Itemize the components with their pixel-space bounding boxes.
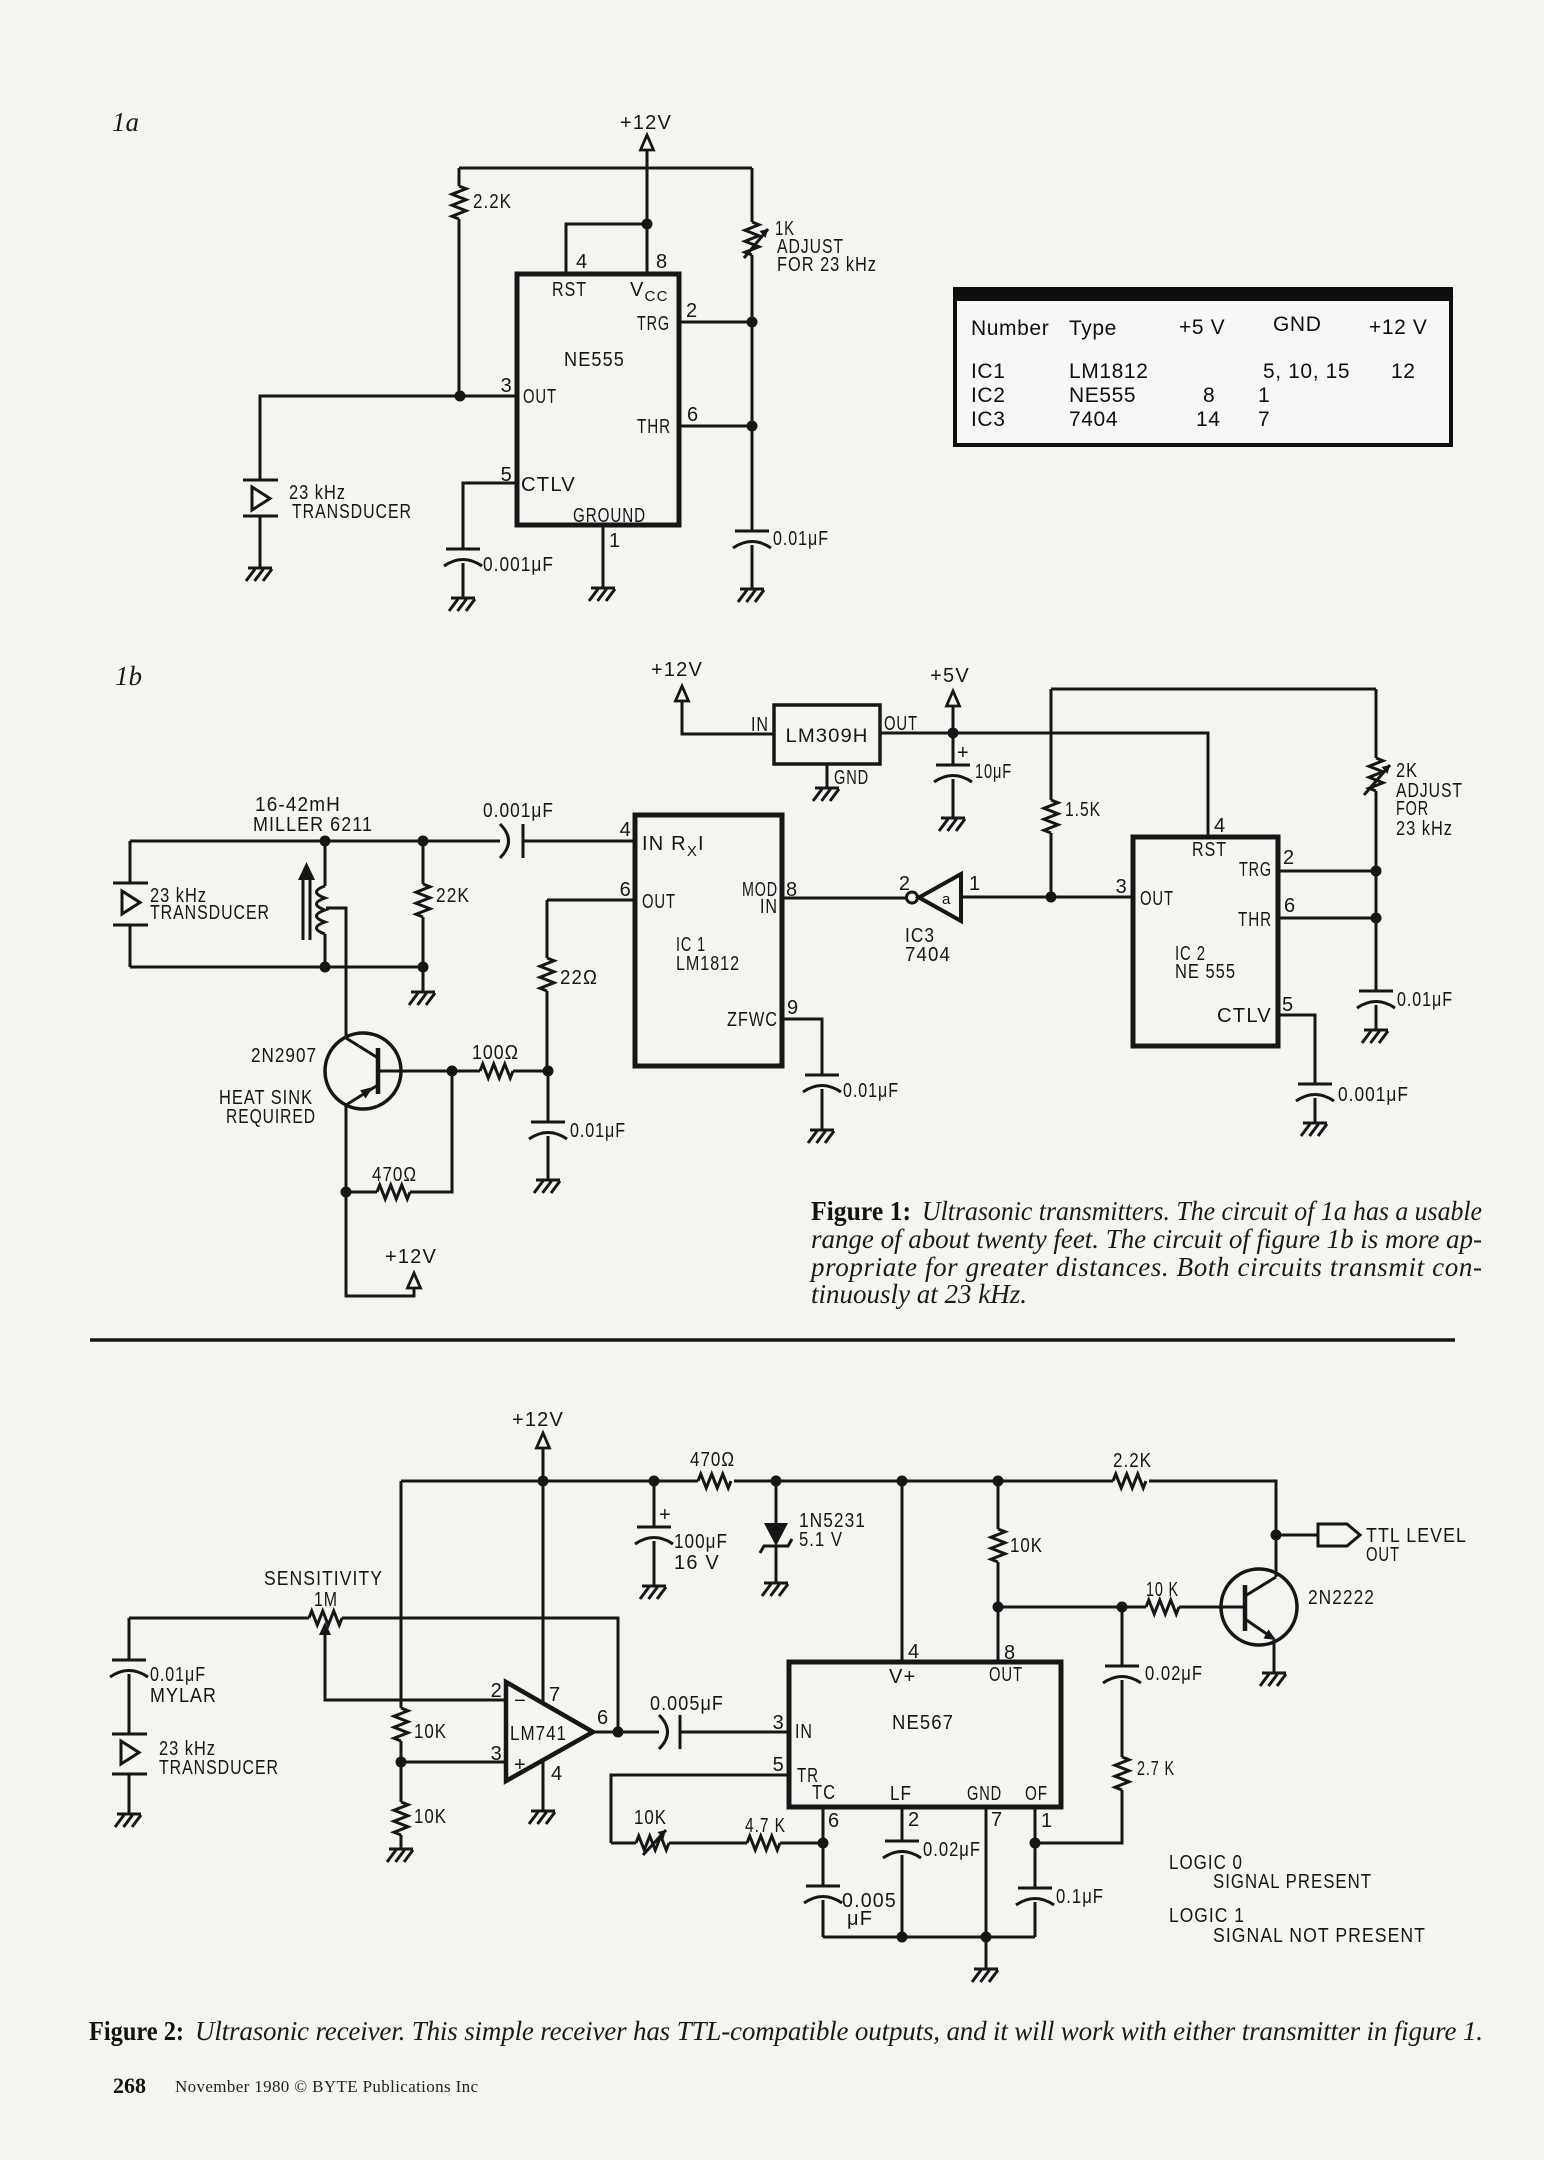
svg-text:OUT: OUT — [1366, 1544, 1400, 1566]
ground (10uF) — [939, 818, 965, 831]
pin 8 wire (NE567 OUT) with resistor 10K — [991, 1481, 1043, 1664]
svg-text:V+: V+ — [889, 1666, 916, 1688]
pin 7 wire (NE567 GND) — [986, 1807, 1003, 1969]
transistor Q1 2N2907 — [219, 1033, 452, 1192]
svg-text:CTLV: CTLV — [521, 474, 576, 496]
svg-text:4.7 K: 4.7 K — [745, 1815, 786, 1837]
node pin4/pin8 junction — [642, 219, 653, 230]
+5V supply symbol — [930, 665, 970, 733]
svg-text:LM1812: LM1812 — [676, 953, 740, 975]
separator rule — [90, 1338, 1455, 1342]
svg-text:8: 8 — [786, 879, 798, 901]
op-amp U1 LM741 — [491, 1680, 610, 1785]
IC NE555 (1a) — [517, 274, 679, 527]
svg-text:Type: Type — [1069, 317, 1117, 340]
pin 2 wire (1a TRG) — [679, 300, 752, 322]
node divider midpoint — [396, 1757, 407, 1768]
svg-text:22Ω: 22Ω — [560, 967, 598, 989]
svg-text:NE567: NE567 — [892, 1712, 954, 1734]
svg-text:LOGIC 1: LOGIC 1 — [1169, 1905, 1245, 1927]
svg-text:IN: IN — [751, 714, 769, 736]
ground (100uF) — [640, 1586, 666, 1599]
svg-text:0.001μF: 0.001μF — [1338, 1084, 1409, 1106]
svg-text:16 V: 16 V — [674, 1552, 720, 1574]
capacitor 100uF 16V — [635, 1481, 728, 1586]
node rail/100uF — [649, 1476, 660, 1487]
ground (pin1 1a) — [589, 588, 615, 601]
node rail/V+ — [897, 1476, 908, 1487]
svg-text:SIGNAL NOT PRESENT: SIGNAL NOT PRESENT — [1213, 1925, 1426, 1947]
svg-text:1b: 1b — [115, 661, 142, 691]
svg-text:100μF: 100μF — [674, 1531, 728, 1553]
svg-text:TRANSDUCER: TRANSDUCER — [292, 501, 412, 523]
node 22K top — [418, 836, 429, 847]
svg-text:NE 555: NE 555 — [1175, 961, 1236, 983]
node inverter output junction — [1046, 892, 1057, 903]
svg-text:propriate for greater distance: propriate for greater distances. Both ci… — [809, 1252, 1482, 1282]
svg-text:7404: 7404 — [1069, 408, 1118, 431]
svg-text:GND: GND — [967, 1783, 1002, 1805]
svg-text:IN: IN — [795, 1721, 813, 1743]
potentiometer 10K (TR) — [611, 1807, 747, 1855]
svg-text:0.1μF: 0.1μF — [1056, 1886, 1104, 1908]
svg-text:TRG: TRG — [637, 313, 670, 335]
svg-text:ZFWC: ZFWC — [727, 1009, 778, 1031]
resistor 2.2K — [452, 168, 512, 396]
svg-text:2N2907: 2N2907 — [251, 1045, 317, 1067]
svg-text:+5V: +5V — [930, 665, 970, 687]
svg-text:OUT: OUT — [642, 891, 676, 913]
svg-text:8: 8 — [1203, 384, 1215, 407]
capacitor 0.01uF (IC1 OUT) — [529, 1071, 626, 1180]
svg-text:1: 1 — [969, 873, 981, 895]
capacitor 0.1uF (OF) — [1016, 1886, 1104, 1937]
svg-text:1a: 1a — [112, 107, 139, 137]
wire bottom rail (fig2) — [823, 1936, 1035, 1939]
capacitor 10uF — [934, 733, 1012, 818]
transducer 23kHz (fig2) — [112, 1734, 279, 1814]
capacitor 0.01uF (ZFWC) — [803, 1075, 899, 1130]
node junction at OUT — [455, 391, 466, 402]
svg-text:GND: GND — [1273, 313, 1321, 336]
node 100 ohm / 22 ohm junction — [543, 1066, 554, 1077]
svg-text:10K: 10K — [414, 1721, 447, 1743]
ground (0.01uF 1a) — [738, 589, 764, 602]
svg-text:2K: 2K — [1396, 760, 1418, 782]
parts table — [953, 287, 1453, 445]
svg-text:6: 6 — [1284, 895, 1296, 917]
svg-text:470Ω: 470Ω — [372, 1164, 417, 1186]
svg-text:9: 9 — [787, 997, 799, 1019]
svg-text:7: 7 — [991, 1809, 1003, 1831]
node inductor bottom — [320, 962, 331, 973]
resistor 22K — [416, 841, 470, 992]
node base junction — [447, 1066, 458, 1077]
svg-text:4: 4 — [576, 251, 588, 273]
node rail/10K — [993, 1476, 1004, 1487]
svg-text:0.001μF: 0.001μF — [483, 554, 554, 576]
svg-text:Ultrasonic transmitters. The c: Ultrasonic transmitters. The circuit of … — [922, 1196, 1482, 1226]
capacitor 0.001uF (1a) — [444, 549, 554, 598]
zener diode 1N5231 5.1V — [760, 1481, 866, 1583]
svg-text:a: a — [942, 891, 951, 908]
svg-text:GND: GND — [834, 767, 869, 789]
capacitor 0.01uF (1a) — [733, 528, 829, 589]
svg-text:10K: 10K — [1010, 1535, 1043, 1557]
capacitor 0.02uF (LF) — [883, 1839, 981, 1937]
resistor 10K (base) — [1146, 1579, 1245, 1614]
svg-text:RST: RST — [552, 279, 587, 301]
ground (2N2222 emitter) — [1260, 1673, 1286, 1686]
ground (LM309H) — [813, 788, 839, 801]
ground (transducer fig2) — [115, 1814, 141, 1827]
ground stub (LM309H GND) — [827, 764, 869, 789]
svg-text:10 K: 10 K — [1146, 1579, 1179, 1601]
pin 1 wire (NE567 OF) — [1035, 1807, 1053, 1888]
node collector/TTL out — [1271, 1530, 1282, 1541]
svg-text:2: 2 — [491, 1680, 503, 1702]
resistor 2.7K — [1035, 1757, 1175, 1843]
svg-text:100Ω: 100Ω — [472, 1042, 519, 1064]
pin 3 wire (IC2 OUT to inverter) — [961, 876, 1133, 898]
ground (0.001uF 1a) — [449, 598, 475, 611]
svg-text:LF: LF — [890, 1783, 912, 1805]
svg-text:MYLAR: MYLAR — [150, 1685, 217, 1707]
ground (10K divider) — [387, 1849, 413, 1862]
wire feedback net top (1b) — [1051, 688, 1376, 691]
svg-text:0.005μF: 0.005μF — [650, 1693, 724, 1715]
svg-text:470Ω: 470Ω — [690, 1449, 735, 1471]
svg-text:5, 10, 15: 5, 10, 15 — [1263, 360, 1350, 383]
wire op-amp output — [593, 1731, 659, 1734]
svg-text:22K: 22K — [436, 885, 470, 907]
svg-text:5: 5 — [773, 1754, 785, 1776]
ground (22K) — [409, 992, 435, 1005]
svg-text:0.01μF: 0.01μF — [150, 1664, 206, 1686]
svg-text:Ultrasonic receiver. This simp: Ultrasonic receiver. This simple receive… — [195, 2016, 1483, 2046]
resistor 470 ohm — [346, 1071, 452, 1199]
capacitor 0.005uF coupling (fig2) — [650, 1693, 789, 1749]
potentiometer SENSITIVITY 1M — [129, 1568, 618, 1732]
svg-text:6: 6 — [687, 404, 699, 426]
svg-text:1M: 1M — [314, 1589, 338, 1611]
svg-text:OUT: OUT — [989, 1664, 1023, 1686]
logic level annotation — [1169, 1852, 1426, 1947]
svg-text:November 1980 © BYTE Publicati: November 1980 © BYTE Publications Inc — [175, 2077, 478, 2096]
svg-text:3: 3 — [501, 375, 513, 397]
+12V supply symbol (emitter) — [346, 1192, 437, 1296]
capacitor 0.005uF (TC) — [804, 1886, 897, 1937]
svg-text:REQUIRED: REQUIRED — [226, 1106, 316, 1128]
svg-text:+12V: +12V — [651, 659, 703, 681]
svg-text:LM309H: LM309H — [786, 726, 869, 747]
svg-text:NE555: NE555 — [1069, 384, 1136, 407]
figure 2 caption — [89, 2016, 1483, 2046]
svg-text:THR: THR — [1238, 909, 1272, 931]
wire +12V rail (fig2) — [401, 1481, 1276, 1577]
svg-text:MILLER 6211: MILLER 6211 — [253, 814, 373, 836]
svg-text:μF: μF — [847, 1908, 873, 1930]
svg-text:0.001μF: 0.001μF — [483, 800, 554, 822]
svg-text:2: 2 — [908, 1809, 920, 1831]
capacitor 0.02uF (OF net) — [1103, 1607, 1203, 1757]
node THR junction — [747, 421, 758, 432]
svg-text:0.02μF: 0.02μF — [923, 1839, 981, 1861]
node THR junction (1b) — [1371, 913, 1382, 924]
svg-text:IC1: IC1 — [971, 360, 1005, 383]
page footer — [113, 2073, 478, 2098]
transducer 23kHz (1a) — [243, 480, 412, 568]
node rail/zener — [771, 1476, 782, 1487]
svg-text:SIGNAL PRESENT: SIGNAL PRESENT — [1213, 1871, 1372, 1893]
svg-text:TRANSDUCER: TRANSDUCER — [159, 1757, 279, 1779]
svg-text:1.5K: 1.5K — [1065, 799, 1101, 821]
node inductor top — [320, 836, 331, 847]
svg-text:2: 2 — [686, 300, 698, 322]
capacitor 0.001uF coupling (1b) — [483, 800, 554, 858]
+12V supply symbol (fig2) — [512, 1409, 564, 1481]
svg-text:Figure 2:: Figure 2: — [89, 2016, 184, 2046]
wire OUT to base network — [998, 1606, 1146, 1609]
node emitter junction — [341, 1187, 352, 1198]
ground (ZFWC cap) — [808, 1130, 834, 1143]
svg-text:+: + — [514, 1754, 527, 1776]
node TC junction — [818, 1838, 829, 1849]
IC NE567 — [789, 1662, 1061, 1807]
wire transducer bottom rail (1b) — [130, 966, 423, 969]
node LF bottom — [897, 1932, 908, 1943]
svg-text:0.01μF: 0.01μF — [1397, 989, 1453, 1011]
pin 5 wire (1a CTLV) — [463, 464, 517, 549]
svg-text:0.01μF: 0.01μF — [773, 528, 829, 550]
svg-text:OUT: OUT — [1140, 888, 1174, 910]
svg-text:+5 V: +5 V — [1179, 316, 1225, 339]
svg-text:IN: IN — [760, 896, 778, 918]
svg-text:0.01μF: 0.01μF — [843, 1080, 899, 1102]
svg-text:NE555: NE555 — [564, 349, 625, 371]
svg-text:4: 4 — [551, 1763, 563, 1785]
pin 4 wire (IC1 IN RxI) — [130, 819, 635, 841]
svg-text:14: 14 — [1196, 408, 1221, 431]
svg-text:OUT: OUT — [523, 386, 557, 408]
svg-text:FOR: FOR — [1396, 798, 1429, 820]
svg-text:12: 12 — [1391, 360, 1416, 383]
svg-text:5.1 V: 5.1 V — [799, 1529, 843, 1551]
IC2 NE555 (1b) — [1133, 837, 1278, 1046]
svg-text:2.7 K: 2.7 K — [1137, 1758, 1175, 1780]
svg-text:+12V: +12V — [620, 112, 672, 134]
+12V supply symbol (1b) — [651, 659, 774, 734]
svg-text:+: + — [957, 742, 970, 764]
svg-text:−: − — [514, 1690, 527, 1712]
node rail/pin7 — [538, 1476, 549, 1487]
svg-text:TRG: TRG — [1239, 859, 1272, 881]
node output junction — [613, 1727, 624, 1738]
pin 7 wire (LM741 V+) — [542, 1481, 545, 1703]
capacitor 0.01uF MYLAR — [110, 1618, 217, 1734]
potentiometer 2K adjust — [1364, 689, 1463, 991]
svg-text:FOR 23 kHz: FOR 23 kHz — [777, 254, 877, 276]
resistor 10K upper divider — [394, 1481, 447, 1762]
svg-text:10K: 10K — [634, 1807, 667, 1829]
wire +5V rail — [880, 733, 1208, 837]
svg-text:7: 7 — [549, 1684, 561, 1706]
pin 9 wire (IC1 ZFWC) — [782, 997, 822, 1075]
svg-text:Number: Number — [971, 317, 1049, 340]
ground (0.01uF 2K) — [1362, 1030, 1388, 1043]
svg-text:2: 2 — [1283, 847, 1295, 869]
node 0.02uF branch — [1117, 1602, 1128, 1613]
svg-text:2: 2 — [899, 873, 911, 895]
svg-text:RST: RST — [1192, 839, 1227, 861]
svg-text:10μF: 10μF — [975, 761, 1012, 783]
svg-text:0.01μF: 0.01μF — [570, 1120, 626, 1142]
svg-text:23 kHz: 23 kHz — [1396, 818, 1453, 840]
resistor 100 ohm — [452, 1042, 548, 1078]
svg-text:GROUND: GROUND — [573, 505, 646, 527]
svg-text:CTLV: CTLV — [1217, 1005, 1272, 1027]
node TRG junction (1b) — [1371, 866, 1382, 877]
TTL LEVEL OUT flag — [1276, 1524, 1467, 1566]
ground (0.001uF IC2) — [1301, 1123, 1327, 1136]
ground (0.01uF IC1 OUT) — [534, 1180, 560, 1193]
resistor 4.7K — [745, 1815, 823, 1850]
svg-text:0.02μF: 0.02μF — [1145, 1663, 1203, 1685]
ground (zener) — [762, 1583, 788, 1596]
resistor 22 ohm — [540, 900, 598, 1071]
svg-text:LM741: LM741 — [510, 1723, 567, 1745]
svg-text:16-42mH: 16-42mH — [255, 794, 341, 816]
capacitor 0.001uF (IC2 CTLV) — [1296, 1084, 1409, 1123]
potentiometer 1K adjust — [744, 168, 877, 531]
svg-text:TC: TC — [812, 1782, 836, 1804]
svg-text:TRANSDUCER: TRANSDUCER — [150, 902, 270, 924]
svg-text:4: 4 — [1214, 815, 1226, 837]
resistor 1.5K — [1044, 689, 1101, 897]
wire OUT to transducer — [260, 396, 517, 480]
capacitor 0.01uF (2K pot) — [1357, 989, 1453, 1030]
svg-text:7404: 7404 — [905, 944, 951, 966]
node +5V junction — [948, 728, 959, 739]
svg-text:range of about twenty feet. Th: range of about twenty feet. The circuit … — [811, 1224, 1482, 1254]
pin 4 wire (NE567 V+) — [902, 1481, 920, 1663]
svg-text:+12 V: +12 V — [1369, 316, 1427, 339]
pin 6 wire (IC1 OUT) — [547, 879, 635, 901]
svg-text:LM1812: LM1812 — [1069, 360, 1149, 383]
svg-text:OF: OF — [1025, 1783, 1048, 1805]
pin 4 wire (1a RST) — [566, 224, 647, 274]
+12V supply symbol (1a) — [620, 112, 672, 168]
wire to op-amp +input — [401, 1761, 506, 1764]
pin 2 wire (NE567 LF) — [902, 1807, 920, 1841]
svg-text:2N2222: 2N2222 — [1308, 1587, 1375, 1609]
svg-text:3: 3 — [773, 1712, 785, 1734]
svg-text:5: 5 — [1282, 994, 1294, 1016]
svg-text:Figure 1:: Figure 1: — [811, 1196, 911, 1226]
pin 6 wire (1a THR) — [679, 404, 752, 426]
node OF junction — [1030, 1838, 1041, 1849]
svg-text:3: 3 — [491, 1743, 503, 1765]
pin 8 wire (1a Vcc) — [647, 168, 668, 274]
svg-text:+12V: +12V — [385, 1246, 437, 1268]
IC1 LM1812 — [635, 815, 782, 1066]
pin 6 wire (IC2 THR) — [1278, 895, 1376, 918]
svg-text:1: 1 — [1041, 1810, 1053, 1832]
svg-text:7: 7 — [1258, 408, 1270, 431]
node OUT junction — [993, 1602, 1004, 1613]
svg-text:IC3: IC3 — [971, 408, 1005, 431]
svg-text:2.2K: 2.2K — [1113, 1450, 1152, 1472]
node TRG junction — [747, 317, 758, 328]
svg-text:8: 8 — [1004, 1642, 1016, 1664]
svg-text:6: 6 — [620, 879, 632, 901]
resistor 2.2K (fig2) — [1113, 1450, 1152, 1488]
inductor 16-42mH MILLER 6211 — [253, 794, 373, 1036]
ground (transducer 1a) — [246, 568, 272, 581]
pin 4 wire (LM741 V-) — [542, 1762, 545, 1811]
svg-text:268: 268 — [113, 2073, 146, 2098]
svg-text:5: 5 — [501, 464, 513, 486]
pin 6 wire (NE567 TC) — [823, 1807, 840, 1886]
svg-text:6: 6 — [597, 1707, 609, 1729]
pin 2 wire (IC2 TRG) — [1278, 847, 1376, 871]
regulator LM309H — [751, 705, 918, 764]
resistor 10K lower divider — [394, 1762, 447, 1849]
node GND bottom — [981, 1932, 992, 1943]
svg-text:6: 6 — [828, 1810, 840, 1832]
svg-text:1: 1 — [609, 530, 621, 552]
transducer 23kHz (1b) — [113, 841, 270, 967]
pin 5 wire (NE567 TR) — [611, 1754, 789, 1843]
svg-text:THR: THR — [637, 416, 671, 438]
svg-text:8: 8 — [656, 251, 668, 273]
transistor Q2 2N2222 — [1221, 1569, 1375, 1673]
node 22K bottom — [418, 962, 429, 973]
svg-text:4: 4 — [620, 819, 632, 841]
svg-text:2.2K: 2.2K — [473, 191, 512, 213]
svg-text:3: 3 — [1116, 876, 1128, 898]
svg-text:IC2: IC2 — [971, 384, 1005, 407]
svg-text:+12V: +12V — [512, 1409, 564, 1431]
wire inverter output to MOD IN — [782, 897, 907, 900]
ground (NE567 pin7) — [972, 1969, 998, 1982]
svg-text:10K: 10K — [414, 1806, 447, 1828]
wire top rail (1a) — [459, 167, 752, 170]
svg-text:1: 1 — [1258, 384, 1270, 407]
svg-text:+: + — [659, 1504, 672, 1526]
pin 5 wire (IC2 CTLV) — [1278, 994, 1315, 1084]
svg-text:SENSITIVITY: SENSITIVITY — [264, 1568, 383, 1590]
svg-text:4: 4 — [908, 1641, 920, 1663]
resistor 470 ohm (fig2) — [690, 1449, 735, 1488]
pin 1 wire (1a GROUND) — [603, 525, 621, 588]
figure 1 caption — [809, 1196, 1482, 1309]
inverter IC3 7404 — [899, 873, 981, 966]
ground (LM741 pin4) — [529, 1811, 555, 1824]
svg-text:tinuously at 23 kHz.: tinuously at 23 kHz. — [811, 1279, 1027, 1309]
